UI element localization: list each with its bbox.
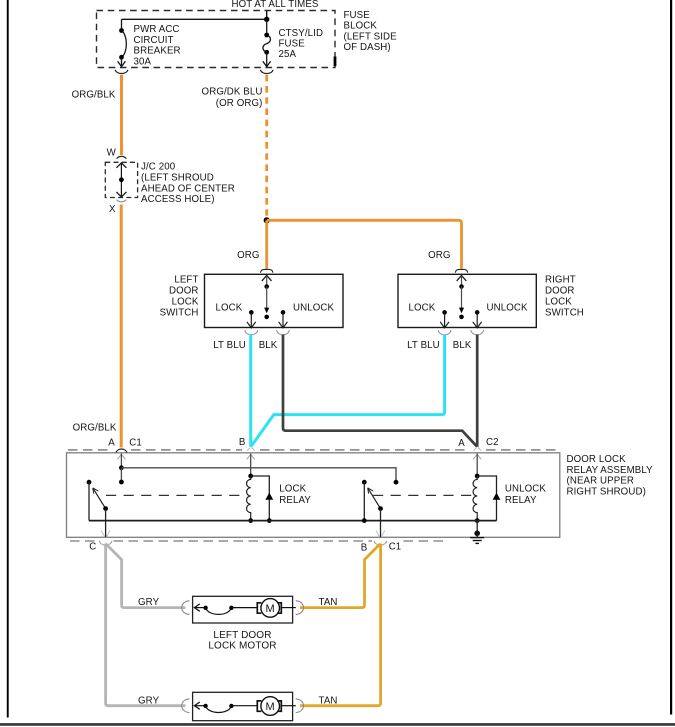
label: LT BLU (left)	[213, 340, 246, 351]
svg-text:C2: C2	[486, 437, 499, 448]
svg-text:LOCK: LOCK	[409, 303, 436, 314]
connector: FUSE BLOCK dashed outline	[97, 11, 336, 68]
svg-text:GRY: GRY	[138, 597, 160, 608]
svg-text:TAN: TAN	[319, 597, 338, 608]
junction: ORG splice node	[264, 217, 270, 223]
contact: right switch LOCK output	[440, 310, 449, 328]
svg-text:(NEAR UPPER: (NEAR UPPER	[567, 476, 635, 487]
svg-text:ORG: ORG	[428, 250, 450, 261]
label: LEFT DOOR LOCK SWITCH	[160, 275, 199, 319]
svg-text:X: X	[109, 204, 116, 215]
connector: fuse block output cup (fuse side)	[260, 70, 273, 74]
relay assembly: DOOR LOCK RELAY ASSEMBLY box	[67, 453, 560, 538]
label: ORG/BLK (lower)	[73, 422, 117, 433]
label: DOOR LOCK RELAY ASSEMBLY (NEAR UPPER RIGHT SHROUD)	[567, 454, 654, 497]
label: terminal C1 (relay top left)	[129, 437, 142, 448]
svg-text:TAN: TAN	[319, 695, 338, 706]
junction: bus node at fuse	[264, 17, 269, 22]
label: LOCK (left switch)	[216, 303, 243, 314]
switch wiper: right switch common arm	[457, 276, 467, 320]
connector: fuse block output cup (breaker side)	[115, 70, 128, 74]
label: terminal B (relay top)	[239, 437, 246, 448]
svg-text:ORG/BLK: ORG/BLK	[73, 422, 117, 433]
svg-text:PWR ACC: PWR ACC	[134, 24, 180, 35]
svg-text:FUSE: FUSE	[344, 10, 371, 21]
label: LT BLU (right)	[407, 340, 440, 351]
junction block: J/C 200 dashed box with through-path	[105, 162, 137, 197]
svg-text:(LEFT SHROUD: (LEFT SHROUD	[141, 172, 214, 183]
svg-text:RELAY: RELAY	[279, 495, 311, 506]
ground: relay assembly ground	[470, 521, 484, 544]
switch: RIGHT DOOR LOCK SWITCH box	[398, 274, 536, 327]
svg-text:A: A	[458, 438, 465, 449]
motor: LEFT DOOR LOCK MOTOR box	[193, 596, 293, 623]
relay contact: lock side stationary point	[87, 480, 92, 521]
label: terminal C1 (relay bottom)	[389, 542, 402, 553]
label: fuse CTSY/LID FUSE 25A	[279, 28, 324, 60]
connector: relay terminal C exit cup	[99, 541, 111, 545]
label: FUSE BLOCK (LEFT SIDE OF DASH)	[344, 10, 398, 53]
wire: ORG/BLK from J/C 200 down to relay terminal A/C1	[120, 205, 123, 448]
svg-text:RELAY: RELAY	[505, 495, 537, 506]
svg-text:C1: C1	[129, 437, 142, 448]
circuit breaker: PWR ACC CIRCUIT BREAKER 30A	[118, 19, 127, 66]
label: terminal A (relay top left)	[108, 437, 115, 448]
label: TAN (upper)	[319, 597, 338, 608]
motor symbol: second door lock motor M	[257, 697, 296, 716]
page border bottom band	[0, 723, 675, 726]
svg-text:SWITCH: SWITCH	[160, 307, 199, 318]
wire: LT BLU right switch to relay terminal B	[251, 335, 445, 447]
svg-text:CTSY/LID: CTSY/LID	[279, 28, 324, 39]
svg-text:W: W	[107, 147, 117, 158]
svg-text:M: M	[266, 603, 275, 615]
svg-text:ORG/BLK: ORG/BLK	[72, 90, 116, 101]
wire: TAN from terminal C1 to left door lock motor	[300, 544, 380, 608]
label: UNLOCK RELAY	[505, 484, 547, 507]
label: terminal B (relay bottom)	[361, 543, 368, 554]
svg-text:A: A	[108, 437, 115, 448]
terminal arrow: A/C1 into relay	[117, 454, 125, 468]
svg-text:C: C	[89, 542, 96, 553]
svg-text:ORG: ORG	[237, 250, 259, 261]
contact: left switch LOCK output	[247, 310, 256, 328]
connector: left switch entry cap	[261, 269, 273, 272]
label: UNLOCK (left switch)	[293, 303, 335, 314]
label: terminal X	[109, 204, 116, 215]
svg-text:DOOR LOCK: DOOR LOCK	[567, 454, 627, 465]
terminal arrow: B into relay	[247, 454, 255, 476]
svg-text:UNLOCK: UNLOCK	[505, 484, 547, 495]
svg-text:B: B	[239, 437, 246, 448]
connector whiskers: terminal B/C1 bottom	[376, 531, 385, 537]
mechanical link: dashed relay actuator line	[106, 494, 473, 496]
svg-text:UNLOCK: UNLOCK	[293, 303, 335, 314]
wire: fuse block internal bus	[122, 18, 267, 20]
wire: GRY from terminal C to second lock motor	[106, 544, 186, 706]
svg-text:LOCK MOTOR: LOCK MOTOR	[208, 641, 276, 652]
label: BLK (right)	[453, 340, 472, 351]
motor: second door lock motor box	[193, 692, 293, 720]
wire: ORG from splice to left switch	[265, 220, 268, 268]
label: terminal C2 (relay top right)	[486, 437, 499, 448]
svg-text:ACCESS HOLE): ACCESS HOLE)	[141, 194, 215, 205]
wire: relay internal ground rail	[89, 518, 497, 523]
coil: UNLOCK RELAY winding	[473, 474, 480, 523]
relay contact: unlock side stationary point	[362, 480, 367, 521]
svg-text:M: M	[266, 701, 275, 713]
svg-text:BLK: BLK	[259, 340, 278, 351]
svg-text:FUSE: FUSE	[279, 39, 306, 50]
label: ORG (right)	[428, 250, 450, 261]
contact: left switch UNLOCK output	[279, 310, 288, 328]
motor internal: second arrow and brush contacts	[194, 702, 256, 713]
label: ORG/BLK (upper)	[72, 90, 116, 101]
svg-text:DOOR: DOOR	[169, 286, 199, 297]
label: TAN (lower)	[319, 695, 338, 706]
svg-text:UNLOCK: UNLOCK	[487, 303, 529, 314]
page border right	[670, 0, 672, 715]
label: LOCK RELAY	[279, 484, 311, 507]
svg-text:LT BLU: LT BLU	[213, 340, 246, 351]
svg-text:AHEAD OF CENTER: AHEAD OF CENTER	[141, 183, 235, 194]
label: ORG (left)	[237, 250, 259, 261]
motor symbol: left door lock motor M	[257, 599, 296, 618]
connector: left motor output cup	[296, 601, 304, 615]
svg-text:BLOCK: BLOCK	[344, 21, 378, 32]
connector whiskers: terminal B tent	[247, 447, 254, 450]
svg-text:LT BLU: LT BLU	[407, 340, 440, 351]
svg-text:LOCK: LOCK	[216, 303, 243, 314]
label: UNLOCK (right switch)	[487, 303, 529, 314]
svg-text:30A: 30A	[134, 56, 152, 67]
relay contact blade: lock side movable arm	[93, 488, 108, 537]
coil: LOCK RELAY winding	[247, 474, 254, 523]
connector: J/C 200 entry cap W	[117, 156, 127, 158]
wire: ORG/BLK from fuse block down to J/C 200	[120, 75, 123, 155]
svg-text:LEFT: LEFT	[174, 275, 198, 286]
connector: left motor input cup	[182, 601, 190, 615]
connector: second motor output cup	[296, 699, 304, 713]
motor internal: left arrow and brush contacts	[194, 604, 256, 614]
connector: second motor input cup	[182, 699, 190, 713]
contact: right switch UNLOCK output	[473, 310, 482, 328]
wire: BLK left switch to relay terminal A/C2	[283, 335, 477, 447]
switch wiper: left switch common arm	[262, 276, 272, 320]
svg-text:(LEFT SIDE: (LEFT SIDE	[344, 31, 398, 42]
svg-text:LOCK: LOCK	[279, 484, 306, 495]
label: terminal C (relay bottom)	[89, 542, 96, 553]
label: RIGHT DOOR LOCK SWITCH	[545, 275, 584, 319]
wire: relay feed bus from C1	[119, 465, 398, 484]
connector: right switch LOCK exit cup	[438, 330, 451, 335]
connector: right switch entry cap	[455, 269, 467, 272]
wire: ORG from splice to right switch	[267, 220, 462, 268]
label: circuit breaker PWR ACC CIRCUIT BREAKER 30A	[134, 24, 181, 67]
svg-text:RIGHT: RIGHT	[545, 275, 576, 286]
svg-text:GRY: GRY	[138, 695, 160, 706]
wire: BLK right switch to relay terminal A/C2	[476, 335, 479, 447]
connector: relay terminal A/C1 entry cap	[116, 449, 127, 453]
svg-text:(OR ORG): (OR ORG)	[216, 98, 263, 109]
label: GRY (upper)	[138, 597, 160, 608]
label: LOCK (right switch)	[409, 303, 436, 314]
label: BLK (left)	[259, 340, 278, 351]
svg-text:SWITCH: SWITCH	[545, 307, 584, 318]
wire: feed stub from HOT bus into fuse block	[266, 11, 268, 20]
svg-text:HOT AT ALL TIMES: HOT AT ALL TIMES	[232, 0, 319, 10]
wire: GRY from terminal C to left door lock motor	[106, 544, 186, 608]
wire: TAN from terminal C1 to second lock motor	[300, 544, 381, 706]
switch: LEFT DOOR LOCK SWITCH box	[205, 274, 344, 327]
connector: left switch UNLOCK exit cup	[277, 330, 290, 335]
connector: left switch LOCK exit cup	[245, 330, 258, 335]
svg-text:RIGHT SHROUD): RIGHT SHROUD)	[567, 486, 646, 497]
svg-text:LOCK: LOCK	[172, 296, 199, 307]
wire: ORG/DK BLU dashed from fuse block to junction node	[265, 75, 268, 219]
page border left	[7, 0, 9, 718]
connector: relay terminal B/C1 exit cup	[374, 541, 386, 545]
svg-text:C1: C1	[389, 542, 402, 553]
connector: right switch UNLOCK exit cup	[471, 330, 484, 335]
fuse: CTSY/LID FUSE 25A	[263, 19, 271, 66]
svg-text:OF DASH): OF DASH)	[344, 42, 391, 53]
svg-text:CIRCUIT: CIRCUIT	[134, 35, 174, 46]
connector row: relay bottom dashed line	[70, 540, 446, 542]
svg-text:LEFT DOOR: LEFT DOOR	[213, 630, 271, 641]
wire: LT BLU left switch to relay terminal B	[249, 335, 252, 447]
svg-text:RELAY ASSEMBLY: RELAY ASSEMBLY	[567, 465, 654, 476]
svg-text:LOCK: LOCK	[545, 296, 572, 307]
label: GRY (lower)	[138, 695, 160, 706]
label: LEFT DOOR LOCK MOTOR	[208, 630, 276, 652]
connector row: relay top dashed line	[68, 449, 556, 451]
terminal arrow: A/C2 into relay	[473, 454, 481, 476]
svg-text:BREAKER: BREAKER	[134, 46, 181, 57]
node: HOT AT ALL TIMES feed label	[232, 0, 319, 10]
svg-text:ORG/DK BLU: ORG/DK BLU	[202, 86, 263, 97]
connector: J/C 200 exit cup X	[117, 200, 127, 202]
connector whiskers: terminal A/C2 tent	[474, 447, 481, 450]
label: ORG/DK BLU (OR ORG)	[202, 86, 263, 109]
svg-text:BLK: BLK	[453, 340, 472, 351]
svg-text:DOOR: DOOR	[545, 286, 575, 297]
label: terminal A (relay top right)	[458, 438, 465, 449]
svg-text:B: B	[361, 543, 368, 554]
svg-text:J/C 200: J/C 200	[141, 162, 176, 173]
coil branch: UNLOCK RELAY arrow leg	[477, 476, 500, 521]
coil branch: LOCK RELAY arrow leg	[251, 476, 274, 523]
label: terminal W	[107, 147, 117, 158]
svg-text:25A: 25A	[279, 49, 297, 60]
label: J/C 200 (LEFT SHROUD AHEAD OF CENTER ACCESS HOLE)	[141, 162, 235, 206]
relay contact blade: unlock side movable arm	[368, 488, 383, 537]
connector whiskers: terminal C bottom	[101, 531, 110, 537]
